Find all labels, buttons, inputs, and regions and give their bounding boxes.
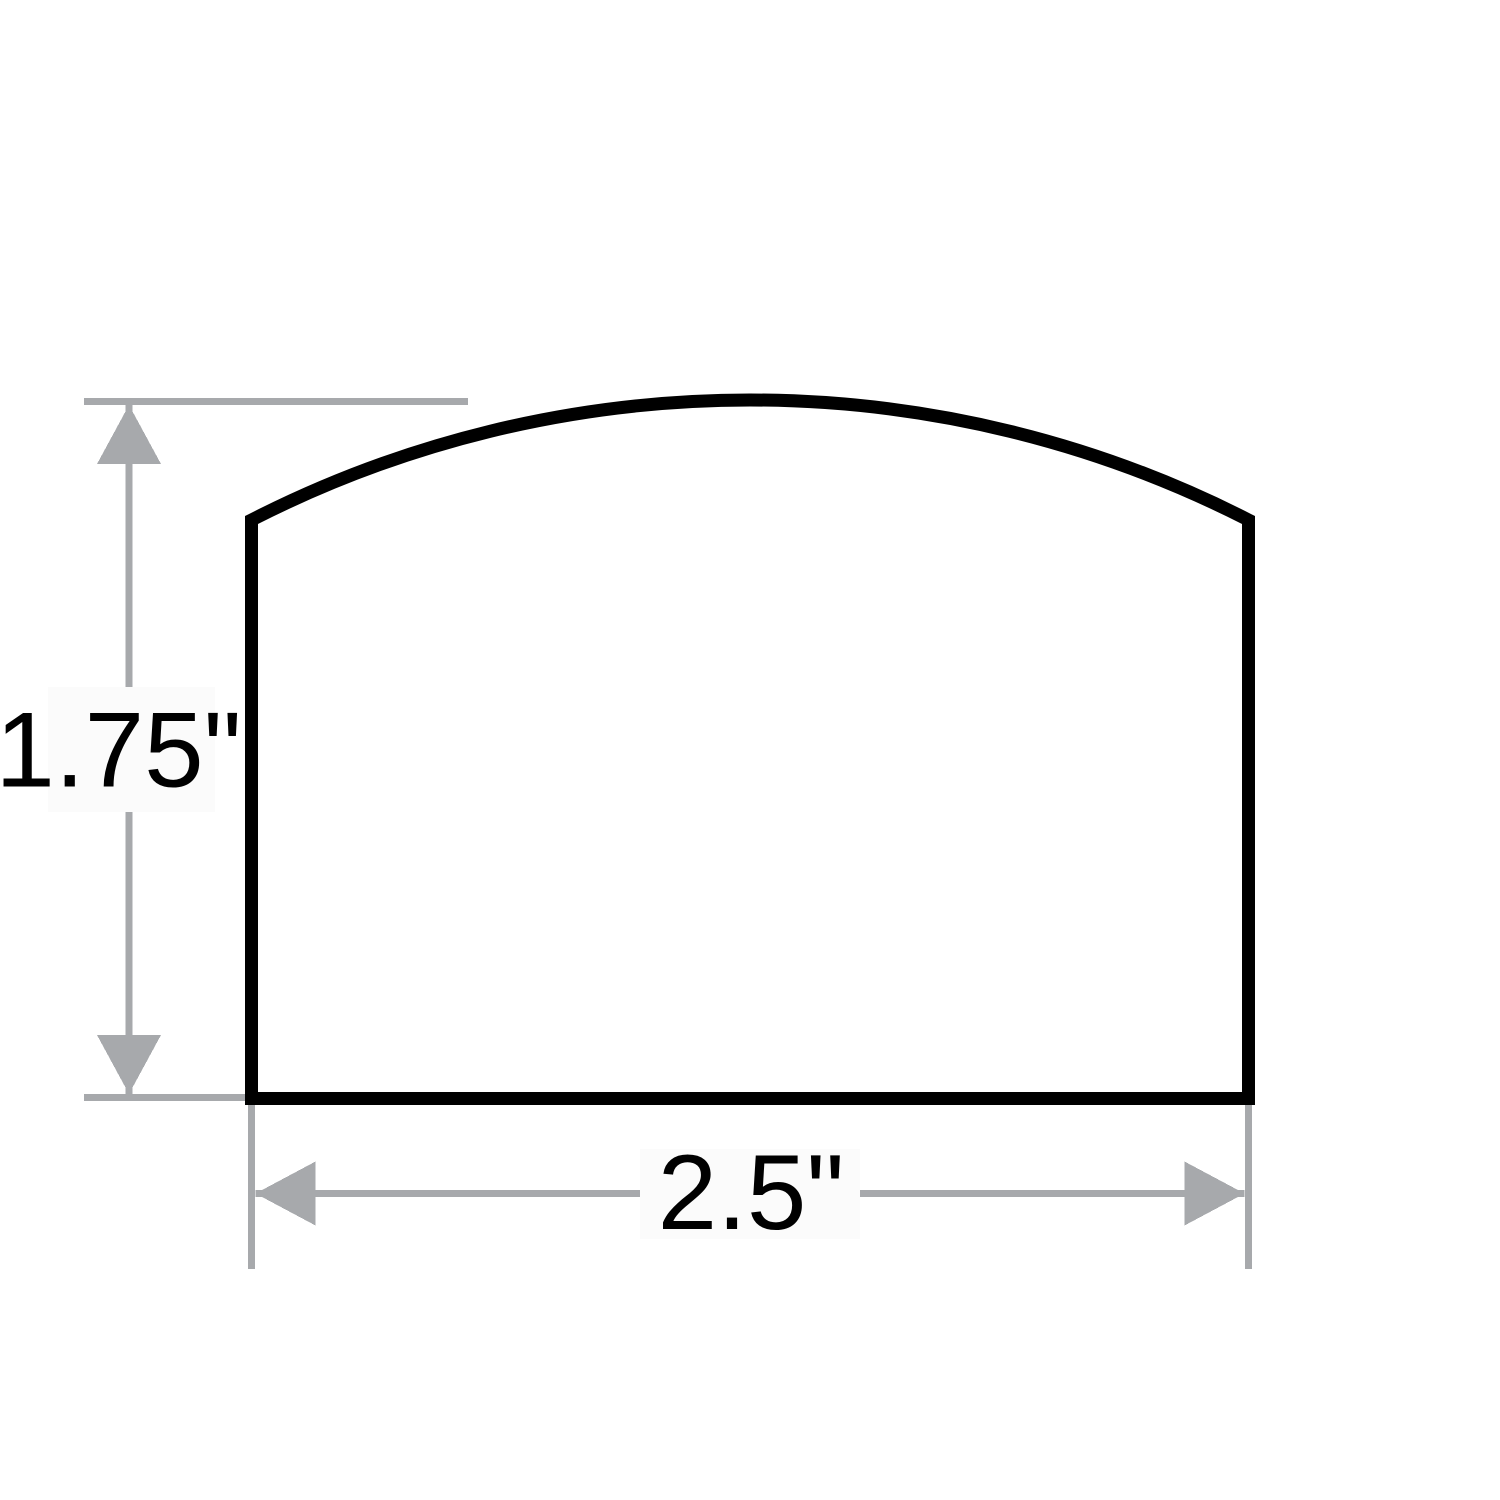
svg-text:2.5": 2.5"	[658, 1132, 845, 1252]
svg-text:1.75": 1.75"	[0, 690, 242, 810]
